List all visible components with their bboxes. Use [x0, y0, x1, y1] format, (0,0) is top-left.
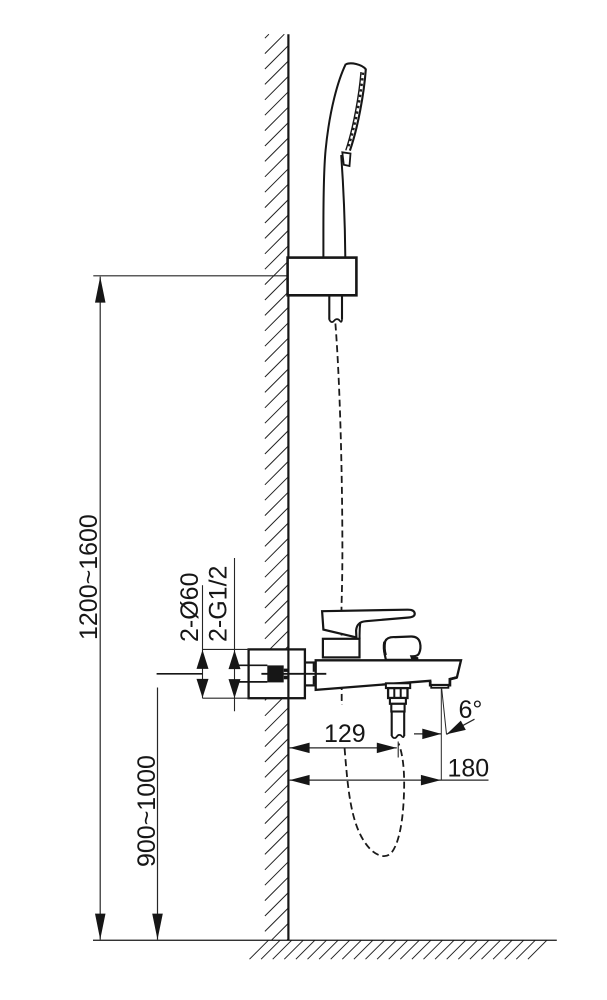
svg-text:180: 180 [448, 755, 490, 783]
svg-text:2-G1/2: 2-G1/2 [205, 566, 233, 642]
svg-text:1200~1600: 1200~1600 [75, 514, 103, 640]
shower hose outlet fitting [386, 683, 410, 688]
lever handle [322, 610, 415, 638]
bracket hose outlet [328, 295, 330, 320]
wall supply fitting (black square) [267, 665, 283, 682]
floor hatching [250, 940, 547, 959]
hand shower wand and head [323, 64, 345, 259]
dimension 2-G1/2 lines and arrows [234, 558, 236, 711]
faucet body [316, 660, 461, 690]
svg-text:6°: 6° [459, 696, 483, 724]
dimension 1200~1600 line and arrows [99, 277, 101, 940]
dimension 900~1000 line and arrow [157, 688, 159, 940]
diverter knob [384, 636, 420, 659]
S-union connection stubs [305, 661, 316, 663]
shower hose (dashed) [335, 324, 404, 857]
wall bracket [288, 258, 357, 296]
supply centerline right segment [261, 673, 326, 675]
hand shower spray selector nub [342, 152, 350, 166]
dimension 129 line and arrows [318, 705, 369, 745]
lever neck [359, 622, 362, 638]
wall hatching [265, 34, 288, 940]
svg-text:129: 129 [324, 720, 366, 748]
fitting nubs [284, 669, 288, 672]
supply centerline left segment [157, 673, 203, 675]
dimension 180 line and arrows [290, 779, 489, 781]
diverter knob left edge accent [384, 642, 385, 655]
dimension 2-Ø60 lines and arrows [202, 585, 204, 698]
cartridge escutcheon [323, 639, 360, 658]
wall connection box [249, 649, 305, 698]
bracket height reference line [93, 275, 288, 277]
wall surface line [287, 34, 289, 940]
svg-text:900~1000: 900~1000 [133, 755, 161, 867]
aerator outline accent [430, 677, 457, 685]
floor line [93, 939, 557, 941]
svg-text:2-Ø60: 2-Ø60 [176, 573, 204, 642]
6 degree angle indicator [440, 688, 442, 780]
aerator lip [431, 685, 448, 688]
